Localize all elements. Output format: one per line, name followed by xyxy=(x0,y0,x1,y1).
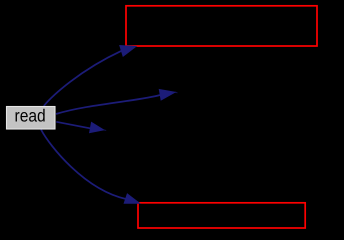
edge: read -> top callee (wire/curve) xyxy=(44,51,122,106)
node: top callee (red-bordered, empty label) xyxy=(126,6,317,46)
arrowhead: read -> middle callee 1 xyxy=(159,90,175,101)
svg-text:read: read xyxy=(15,106,46,126)
edge tip: read -> middle callee 2 (spline end past arrowhead) xyxy=(104,129,106,132)
arrowhead: read -> middle callee 2 xyxy=(90,122,104,132)
arrowhead: read -> top callee xyxy=(120,46,136,57)
edge: read -> middle callee 1 (wire) xyxy=(56,95,160,114)
arrowhead: read -> bottom callee xyxy=(124,194,139,203)
node: bottom callee (red-bordered, empty label) xyxy=(138,203,305,228)
edge: read -> middle callee 2 (wire) xyxy=(56,122,92,129)
edge: read -> bottom callee (wire/curve) xyxy=(41,130,126,200)
node: read (current function, gray box) xyxy=(7,107,56,130)
edge tip: read -> middle callee 1 (spline end past arrowhead) xyxy=(175,91,177,94)
